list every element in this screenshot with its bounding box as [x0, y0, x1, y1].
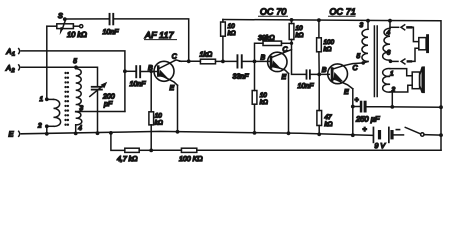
svg-text:4: 4 — [78, 125, 82, 132]
svg-text:kΩ: kΩ — [228, 30, 236, 37]
value label 250 uF — [355, 115, 380, 124]
plug (speaker I top) — [406, 26, 412, 29]
svg-text:B: B — [261, 55, 266, 62]
value label 39kOhm — [258, 34, 275, 42]
svg-text:C: C — [172, 53, 178, 60]
svg-text:6: 6 — [387, 50, 391, 57]
wire: A2 to 200pF top / coil tap 5 — [21, 67, 98, 86]
value label 10nF (C2) — [130, 81, 147, 88]
svg-text:1: 1 — [12, 52, 15, 58]
resistor 100kOhm (bottom) — [151, 148, 197, 152]
svg-text:S: S — [58, 13, 63, 20]
label OC 70 — [259, 7, 288, 17]
svg-text:OC 71: OC 71 — [330, 7, 356, 17]
junction: OC71 emitter to 250uF — [351, 105, 355, 109]
pin label B (OC70) — [261, 55, 266, 62]
junction: 1k / 10k / 33nF node — [221, 60, 225, 64]
junction: tap 2 — [45, 124, 49, 128]
svg-text:B: B — [148, 65, 153, 72]
capacitor 250uF electrolytic — [353, 101, 367, 113]
wire: A1 node to C2 — [125, 70, 135, 72]
potentiometer R 10k — [47, 24, 83, 29]
value label 10 kOhm (potentiometer) — [67, 30, 87, 39]
junction: OC70 load on top rail — [290, 18, 294, 22]
output transformer secondary I (taps 4-6) — [383, 21, 390, 60]
svg-text:4: 4 — [387, 30, 391, 37]
polarity label - (battery) — [396, 129, 399, 131]
value label 200 pF — [102, 94, 115, 108]
svg-text:AF 117: AF 117 — [144, 30, 175, 40]
wire: base node up to 39k — [255, 43, 264, 61]
terminal A1 — [18, 49, 21, 54]
value label 10 kOhm (decoupling) — [228, 23, 236, 37]
wire: secondary II bottom to speaker II and return — [390, 85, 412, 107]
pin label 2 (secondary II) — [391, 87, 396, 94]
pin label 4 (secondary I) — [387, 30, 391, 37]
svg-text:100: 100 — [324, 39, 335, 46]
junction: tap 1 — [45, 97, 49, 101]
capacitor C2 10nF (AF117 base) — [135, 65, 141, 78]
value label 9 V — [375, 143, 387, 150]
junction: speaker return node — [390, 105, 394, 109]
svg-text:E: E — [170, 85, 175, 92]
antenna coil secondary (taps 5-3-4) — [76, 67, 82, 133]
svg-text:B: B — [322, 67, 327, 74]
wire: C2 to AF117 base — [141, 71, 157, 73]
battery 9V — [373, 127, 404, 144]
svg-text:47: 47 — [325, 114, 333, 121]
pin label E (OC70) — [282, 74, 287, 81]
svg-text:pF: pF — [103, 101, 113, 108]
svg-text:2: 2 — [37, 123, 42, 130]
junction: 100k on top rail — [317, 18, 321, 22]
pin label B (AF117) — [148, 65, 153, 72]
wire: plug to speaker I top — [412, 27, 419, 41]
svg-text:2: 2 — [11, 68, 15, 74]
capacitor C1 10nF (feedback) — [109, 13, 115, 25]
junction: A1 line to C2 — [123, 69, 127, 73]
transistor V1 AF117 — [154, 60, 181, 132]
junction: 200pF on E rail — [96, 131, 100, 135]
svg-text:4,7 kΩ: 4,7 kΩ — [117, 155, 138, 163]
svg-text:100 KΩ: 100 KΩ — [179, 156, 203, 163]
junction: switch on right rail — [439, 133, 443, 137]
wire: OC70 collector to C4 — [292, 43, 306, 74]
svg-text:kΩ: kΩ — [260, 99, 268, 106]
junction: bypass branch on E rail — [109, 131, 113, 135]
svg-text:250 µF: 250 µF — [355, 115, 380, 124]
value label 100 kOhm — [324, 39, 335, 53]
junction: OC71 collector to primary — [361, 61, 365, 65]
polarity label + (battery) — [363, 127, 367, 134]
wire: S to C1 — [67, 18, 109, 20]
svg-text:10: 10 — [296, 25, 304, 32]
wire: tap 3 to AF117 base node — [76, 111, 125, 113]
wire: plug to speaker I bottom — [412, 48, 419, 61]
switch S (on potentiometer) — [60, 17, 67, 35]
svg-text:1: 1 — [390, 71, 394, 78]
ferrite core (dot columns) — [64, 72, 69, 126]
value label 4,7 kOhm — [117, 155, 138, 163]
svg-text:10: 10 — [228, 23, 236, 30]
svg-text:C: C — [283, 46, 289, 53]
jack contact (speaker I top) — [390, 25, 405, 30]
transistor V2 OC70 — [256, 50, 292, 134]
svg-text:E: E — [282, 74, 287, 81]
wire: secondary II top to speaker II — [390, 69, 412, 76]
pin label 3 — [80, 105, 84, 112]
label A1 — [6, 47, 16, 58]
svg-text:+: + — [355, 97, 359, 104]
svg-text:200: 200 — [102, 94, 115, 101]
junction: base bias node — [150, 70, 153, 73]
svg-text:39kΩ: 39kΩ — [258, 34, 275, 42]
pin label 3 (output transformer) — [360, 22, 364, 29]
value label 47 kOhm — [325, 114, 333, 128]
svg-text:10nF: 10nF — [103, 29, 120, 36]
junction: secondary I bottom — [389, 60, 393, 64]
wire: C1 to AF117 collector node — [114, 19, 189, 61]
pin label 1 — [40, 96, 44, 103]
loudspeaker I — [419, 34, 429, 53]
svg-text:1kΩ: 1kΩ — [200, 51, 213, 59]
pin label 6 (secondary I) — [387, 50, 391, 57]
junction: OC71 emitter on E rail — [351, 133, 355, 137]
wire: E rail — [21, 131, 373, 135]
value label 10 kOhm (OC70 base) — [260, 92, 268, 106]
jack contact (speaker I bottom) — [391, 59, 405, 64]
svg-text:kΩ: kΩ — [324, 46, 332, 53]
switch (on-off) — [405, 127, 441, 136]
wire: 250uF to output/right rail — [367, 106, 441, 109]
value label 10 kOhm (OC70 load) — [296, 25, 304, 39]
capacitor 33nF — [237, 54, 255, 68]
output transformer secondary II (taps 1-2) — [383, 69, 390, 93]
junction: divider tap — [149, 149, 153, 153]
value label 33nF — [233, 74, 250, 81]
svg-text:A: A — [6, 47, 12, 56]
svg-text:A: A — [5, 64, 11, 73]
pin label B (OC71) — [322, 67, 327, 74]
pin label E (OC71) — [344, 89, 349, 96]
loudspeaker II — [412, 66, 425, 93]
terminal A2 — [18, 65, 21, 70]
resistor 47kOhm (OC71 base to E rail) — [317, 74, 322, 134]
junction: tap 4 on E rail — [74, 132, 78, 136]
label A2 — [5, 64, 15, 75]
svg-text:+: + — [363, 127, 367, 134]
output transformer primary (taps 3-5) — [362, 21, 368, 63]
wire: bottom return to right rail — [197, 149, 441, 151]
svg-text:5: 5 — [357, 53, 361, 60]
pin label 5 (output transformer) — [357, 53, 361, 60]
pin label C (AF117) — [172, 53, 178, 60]
value label 1kOhm — [200, 51, 213, 59]
svg-text:1: 1 — [40, 96, 44, 103]
value label 100 KOhm — [179, 156, 203, 163]
svg-text:3: 3 — [360, 22, 364, 29]
value label 10nF (C4) — [298, 83, 315, 90]
pin label 1 (secondary II) — [390, 71, 394, 78]
junction: AF117 emitter on E rail — [176, 130, 180, 134]
terminal E — [18, 131, 21, 136]
resistor 100kOhm (OC71 base, from top rail) — [317, 20, 322, 74]
resistor 1kOhm (AF117 collector) — [200, 59, 236, 64]
pin label C (OC70) — [283, 46, 289, 53]
svg-text:10nF: 10nF — [130, 81, 147, 88]
junction: tap 5 on A2 wire — [74, 65, 78, 69]
wire: 200pF bottom to E rail — [97, 90, 99, 133]
value label 10nF (C1) — [103, 29, 120, 36]
resistor 10k (OC70 base to rail E) — [252, 61, 257, 132]
svg-text:kΩ: kΩ — [155, 120, 163, 127]
junction: primary tap 3 on top rail — [366, 19, 370, 23]
svg-text:E: E — [9, 130, 15, 139]
svg-text:33nF: 33nF — [233, 74, 250, 81]
pin label 2 — [37, 123, 42, 130]
resistor 4.7kOhm — [125, 148, 151, 152]
svg-text:kΩ: kΩ — [325, 121, 333, 128]
wire: AF117 collector rail — [180, 60, 201, 62]
resistor 10k (AF117 base bias) — [149, 72, 154, 151]
resistor 10k (decoupling to top rail) — [221, 20, 226, 62]
junction: OC70 base resistor on E rail — [253, 131, 257, 135]
svg-text:10: 10 — [155, 113, 163, 120]
plug (speaker I bottom) — [407, 60, 413, 62]
label S — [58, 13, 63, 20]
svg-text:10: 10 — [260, 92, 268, 99]
variable capacitor 200pF — [90, 82, 107, 97]
pin label 5 (antenna coil) — [73, 58, 77, 65]
svg-text:5: 5 — [73, 58, 77, 65]
label AF 117 — [144, 30, 177, 40]
polarity label + (250uF) — [355, 97, 359, 104]
pin label E (AF117) — [170, 85, 175, 92]
resistor 39kOhm — [263, 41, 292, 45]
wire: branch to bias divider — [111, 133, 125, 151]
junction: output wire on right rail — [439, 105, 443, 109]
junction: OC70 base node — [253, 60, 257, 64]
junction: 39k to collector — [290, 42, 293, 45]
label OC 71 — [329, 7, 356, 17]
junction: 47k on E rail — [317, 132, 321, 136]
junction: OC70 emitter on E rail — [287, 131, 291, 135]
pin label C (OC71) — [353, 65, 359, 72]
junction: feedback to collector rail — [187, 59, 191, 63]
wire: vertical from potentiometer to coil tap 1 — [46, 26, 48, 99]
pin label 4 — [78, 125, 82, 132]
svg-text:E: E — [344, 89, 349, 96]
capacitor C4 10nF (OC71 base) — [306, 69, 330, 79]
resistor 10k (OC70 collector load) — [289, 20, 294, 44]
svg-text:OC 70: OC 70 — [260, 7, 286, 17]
antenna coil primary (taps 1-2) — [47, 99, 61, 126]
svg-text:10nF: 10nF — [298, 83, 315, 90]
wire: A1 to C2 / tap 3 node — [21, 51, 125, 112]
transistor V3 OC71 — [328, 63, 364, 135]
svg-text:kΩ: kΩ — [296, 32, 304, 39]
svg-text:C: C — [353, 65, 359, 72]
svg-text:10 kΩ: 10 kΩ — [67, 30, 87, 39]
wire: top supply rail — [223, 20, 441, 151]
svg-text:9 V: 9 V — [375, 143, 387, 150]
output transformer core — [374, 26, 377, 97]
label E — [9, 130, 15, 139]
junction: secondary I top on rail — [388, 19, 392, 23]
wire: tap 2 to E rail — [46, 126, 48, 134]
junction: OC71 base node — [317, 73, 321, 77]
junction: tap 2 ground — [45, 132, 49, 136]
value label 10 kOhm (base bias) — [155, 113, 163, 127]
